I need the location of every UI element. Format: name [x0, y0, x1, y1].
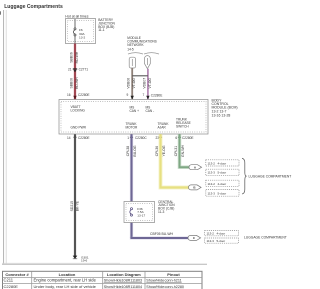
BCM pin label MS CAN+: [130, 106, 140, 114]
luggage ref box blue 113-2 4-door: [205, 231, 239, 236]
BCM pin label TRUNK AJAR: [158, 122, 170, 130]
fuse in CJB: [130, 208, 133, 216]
brace for luggage compartment group: [242, 158, 247, 194]
svg-text:Location Diagram: Location Diagram: [107, 272, 141, 277]
wire SBB06 RD (red, fuse to BCM): [74, 44, 76, 100]
svg-text:C2280E: C2280E: [78, 93, 90, 97]
svg-text:VDB06: VDB06: [127, 78, 131, 89]
BCM pin label GND PWR: [71, 126, 87, 130]
svg-text:4-door: 4-door: [218, 162, 227, 166]
svg-text:11-1: 11-1: [98, 28, 105, 32]
svg-text:CPL31: CPL31: [174, 146, 178, 156]
table row C2280E: [4, 284, 184, 289]
svg-text:113-3: 113-3: [208, 171, 216, 175]
BCM pin label TRUNK MOTOR: [126, 122, 139, 130]
svg-text:RD-WH: RD-WH: [75, 51, 79, 63]
svg-text:13-2: 13-2: [79, 36, 85, 40]
luggage ref box yellow 113-3 5-door: [206, 190, 239, 197]
BCM pin label MS CAN-: [146, 106, 155, 114]
svg-text:C2280E: C2280E: [4, 284, 19, 289]
svg-text:CAN +: CAN +: [130, 109, 140, 113]
title Luggage Compartments: [4, 4, 63, 10]
label MODULE COMMUNICATIONS NETWORK 14-5: [127, 36, 157, 51]
svg-text:21: 21: [68, 67, 72, 71]
svg-text:Show/Hide: Show/Hide: [146, 279, 164, 283]
svg-text:19-6: 19-6: [81, 259, 87, 263]
svg-text:VT-OG: VT-OG: [132, 78, 136, 89]
svg-text:Engine compartment, rear LH si: Engine compartment, rear LH side: [34, 278, 97, 283]
frame left border: [0, 10, 6, 264]
wire VDB07 (violet CAN-): [147, 69, 149, 100]
svg-text:14: 14: [67, 136, 71, 140]
pin 9 (arrow into BCM): [127, 93, 134, 99]
svg-text:6: 6: [175, 136, 177, 140]
inline connector C2771 pin 21: [68, 67, 88, 72]
svg-text:113-2: 113-2: [207, 232, 215, 236]
BCM pin label VBATT LOCKING: [71, 105, 86, 113]
connector arrow C (blue branch): [188, 235, 201, 240]
svg-text:Show/Hide: Show/Hide: [104, 285, 122, 289]
svg-text:5-door: 5-door: [217, 239, 226, 243]
luggage ref box green 113-2 4-door: [206, 160, 239, 166]
svg-text:16: 16: [67, 93, 71, 97]
wire label SD215 / BK: [70, 200, 79, 211]
central junction box (dashed): [124, 202, 155, 223]
pin 23 (arrow into BCM bottom, trunk ajar): [155, 134, 162, 140]
svg-text:SBB06: SBB06: [70, 52, 74, 63]
label BATTERY JUNCTION BOX (BJB) 11-1: [98, 18, 115, 32]
connector table: [3, 271, 203, 289]
svg-text:VDB07: VDB07: [142, 78, 146, 89]
frame bottom border: [2, 263, 207, 264]
svg-text:Show/Hide: Show/Hide: [146, 285, 164, 289]
wire label CPL31 / GN-WH: [174, 145, 185, 157]
label LUGGAGE COMPARTMENT (blue branch): [244, 236, 287, 240]
BCM pin label TRUNK RELEASE SWITCH: [176, 117, 191, 128]
svg-text:BK-YE: BK-YE: [75, 200, 79, 211]
CAN crossbar link: [132, 75, 148, 77]
svg-text:113-2: 113-2: [208, 162, 216, 166]
svg-text:Under body, rear LH side of ve: Under body, rear LH side of vehicle: [34, 284, 97, 289]
label CENTRAL JUNCTION BOX (CJB) 11-3: [158, 200, 175, 214]
svg-text:5-door: 5-door: [218, 192, 227, 196]
wire label CPL38 / BU-OG: [126, 145, 137, 156]
svg-text:Location: Location: [59, 272, 76, 277]
fuse value label F6 30A 13-2: [79, 28, 85, 40]
wire label VDB07 / VT-OG: [142, 78, 152, 89]
svg-text:C2280E: C2280E: [78, 136, 90, 140]
svg-text:YE-OG: YE-OG: [162, 145, 166, 156]
battery junction box (dashed): [66, 19, 96, 44]
luggage ref box blue 113-3 5-door: [205, 238, 239, 243]
svg-text:C211: C211: [4, 278, 14, 283]
connector arrow A (green branch): [189, 165, 202, 170]
svg-text:VT-OG: VT-OG: [148, 78, 152, 89]
svg-text:CBF05 BU-WH: CBF05 BU-WH: [150, 232, 174, 236]
svg-text:LUGGAGE COMPARTMENT: LUGGAGE COMPARTMENT: [244, 236, 287, 240]
wire label VDB06 / VT-OG: [127, 78, 136, 89]
svg-text:C2280E: C2280E: [151, 93, 163, 97]
luggage ref box yellow 113-2 4-door: [206, 180, 239, 186]
svg-text:C2771: C2771: [79, 67, 89, 71]
label LUGGAGE COMPARTMENT (green/yellow branches): [249, 175, 292, 179]
twisted pair arc marks: [128, 53, 159, 54]
ground G301: [73, 255, 89, 262]
svg-text:108R111804: 108R111804: [122, 285, 143, 289]
svg-text:4-door: 4-door: [217, 232, 226, 236]
wire CBF05 (blue horizontal to luggage compartment): [132, 237, 189, 238]
pin 14 C2280E (arrow out of BCM bottom): [67, 134, 90, 140]
wire CPL31 GN (green, trunk release switch): [180, 134, 190, 167]
svg-text:CPL38: CPL38: [126, 146, 130, 156]
wire label CBF05 BU-WH: [150, 232, 174, 236]
svg-text:RD-WH: RD-WH: [75, 77, 79, 89]
svg-text:Luggage Compartments: Luggage Compartments: [4, 4, 63, 10]
svg-text:CPL36: CPL36: [155, 146, 159, 156]
off-page connector CAN left (stadium): [129, 57, 135, 68]
svg-text:Show/Hide: Show/Hide: [104, 279, 122, 283]
svg-text:13-16 13-28: 13-16 13-28: [212, 113, 231, 117]
wire VDB06 (gray CAN+): [131, 68, 133, 99]
svg-text:SBB06: SBB06: [70, 78, 74, 89]
svg-text:113-2: 113-2: [208, 182, 216, 186]
svg-text:CAN -: CAN -: [146, 109, 155, 113]
svg-text:4-door: 4-door: [218, 182, 227, 186]
wire label SBB06 / RD lower: [70, 77, 79, 89]
fuse value label F2.8 7.5A 13-17: [137, 207, 145, 218]
svg-text:MOTOR: MOTOR: [126, 126, 139, 130]
svg-text:113-3: 113-3: [208, 192, 216, 196]
svg-text:11-3: 11-3: [158, 210, 165, 214]
svg-text:108R111803: 108R111803: [122, 279, 143, 283]
pin 1 C2280C (arrow into BCM bottom, trunk motor): [127, 134, 147, 140]
svg-text:GND PWR: GND PWR: [71, 126, 87, 130]
fuse F6 30A: [73, 19, 76, 43]
wire SD215 BK (ground wire): [74, 134, 76, 256]
svg-text:AJAR: AJAR: [158, 126, 167, 130]
svg-text:GN-WH: GN-WH: [181, 145, 185, 157]
svg-text:Connector #: Connector #: [5, 272, 29, 277]
svg-text:LOCKING: LOCKING: [71, 109, 86, 113]
table header row: [5, 272, 180, 277]
wire label CPL36 / YE-OG: [155, 145, 166, 156]
svg-text:LUGGAGE COMPARTMENT: LUGGAGE COMPARTMENT: [249, 175, 292, 179]
svg-text:C2280C: C2280C: [135, 136, 147, 140]
wire CPL36 YE (yellow, trunk ajar): [161, 134, 190, 187]
table row C211: [4, 278, 182, 283]
svg-text:7: 7: [143, 93, 145, 97]
pin 16 C2280E (arrow into BCM): [67, 93, 90, 99]
off-page connector CAN right (pointed): [145, 56, 151, 69]
svg-text:113-3: 113-3: [207, 239, 215, 243]
svg-text:14-5: 14-5: [127, 47, 134, 51]
svg-text:9: 9: [127, 93, 129, 97]
svg-text:SD215: SD215: [70, 201, 74, 211]
svg-text:C2280E: C2280E: [182, 136, 194, 140]
pin 6 C2280E (arrow into BCM bottom, trunk release): [175, 134, 193, 140]
svg-text:SWITCH: SWITCH: [176, 125, 189, 129]
svg-text:Pinout: Pinout: [167, 272, 180, 277]
wire CPL38 BU-OG (blue, trunk motor) vertical: [130, 134, 132, 238]
wire label SBB06 / RD upper: [70, 51, 79, 63]
body control module box (dashed): [59, 100, 208, 135]
connector arrow B (yellow branch): [189, 185, 202, 190]
svg-text:conn-h211: conn-h211: [165, 279, 182, 283]
svg-text:5-door: 5-door: [218, 171, 227, 175]
svg-text:13-17: 13-17: [137, 213, 145, 217]
svg-text:BU-OG: BU-OG: [133, 145, 137, 156]
svg-text:Hot at all times: Hot at all times: [65, 14, 88, 18]
luggage ref box green 113-3 5-door: [206, 169, 239, 176]
label BODY CONTROL MODULE (BCM): [212, 98, 238, 117]
pin 7 C2280E (arrow into BCM): [143, 93, 163, 99]
svg-text:conn-h2280: conn-h2280: [165, 285, 184, 289]
svg-text:1: 1: [127, 136, 129, 140]
label Hot at all times: [65, 14, 88, 18]
